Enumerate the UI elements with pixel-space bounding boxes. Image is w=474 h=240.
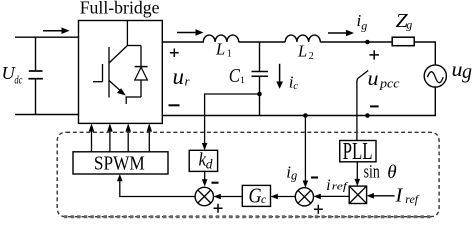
node C1 tap junction (257, 92, 262, 97)
ac source ug (424, 65, 446, 87)
wire Zg to source corner (414, 42, 435, 65)
wire multiplier to S2 (314, 194, 350, 200)
label L1 (215, 40, 232, 60)
capacitor C1 branch wire (259, 42, 261, 116)
label Iref (395, 185, 420, 207)
current arrow after bridge (177, 29, 204, 36)
label minus (u_pcc) (370, 105, 379, 107)
node u_pcc minus junction (365, 113, 370, 118)
svg-text:L: L (297, 42, 307, 61)
svg-text:Full-bridge: Full-bridge (80, 0, 160, 18)
label sin theta (364, 161, 397, 183)
label Udc (2, 63, 23, 86)
svg-text:dc: dc (14, 75, 22, 87)
svg-text:g: g (462, 61, 472, 83)
label ig (357, 11, 368, 33)
wire L2 to Zg (320, 41, 392, 43)
multiplier (sin product) (349, 186, 366, 203)
wire S2 to Gc (271, 194, 296, 200)
dashed controller border (57, 132, 439, 217)
svg-text:u: u (368, 68, 379, 90)
label minus (S1) (212, 182, 219, 184)
svg-text:θ: θ (387, 162, 396, 183)
full-bridge box (79, 21, 163, 124)
Gc box (242, 185, 270, 206)
current arrow ig (328, 30, 354, 37)
label + (S1) (214, 204, 223, 213)
label ug (452, 57, 473, 83)
wire Iref to multiplier (367, 193, 395, 199)
gate drive arrows SPWM to bridge (89, 123, 152, 151)
svg-text:i: i (326, 177, 330, 194)
svg-text:G: G (249, 183, 262, 207)
impedance Zg (392, 37, 414, 46)
capacitor Udc (dc-link) (28, 37, 43, 114)
wire bottom-left dc rail (15, 114, 79, 116)
label Zg (396, 11, 413, 32)
diode (anti-parallel) (127, 46, 147, 98)
svg-text:u: u (452, 57, 463, 81)
wire top-left dc rail (15, 36, 79, 38)
wire summer S1 to SPWM (117, 174, 195, 197)
svg-text:c: c (261, 192, 267, 206)
inductor L2 (285, 35, 320, 42)
label u_pcc (368, 68, 400, 91)
transistor IGBT (bridge symbol) (93, 21, 141, 105)
svg-text:g: g (361, 18, 367, 32)
svg-text:ref: ref (332, 181, 350, 192)
label + (S2) (314, 205, 323, 214)
svg-text:1: 1 (227, 49, 232, 60)
wire Gc to S1 (214, 194, 243, 200)
label iref (326, 177, 349, 194)
wire u_pcc to PLL (356, 81, 358, 141)
svg-text:1: 1 (240, 75, 245, 86)
svg-text:g: g (406, 18, 412, 32)
kd box (189, 150, 217, 171)
svg-text:I: I (395, 185, 404, 207)
label u_r (173, 64, 191, 89)
wire PLL to multiplier (355, 162, 361, 186)
svg-text:SPWM: SPWM (94, 153, 145, 175)
svg-text:r: r (185, 74, 191, 89)
svg-text:ref: ref (405, 194, 420, 206)
label PLL (343, 139, 373, 165)
label + (u_r) (170, 49, 179, 58)
label minus (S2) (311, 176, 318, 178)
svg-text:C: C (229, 65, 240, 87)
label C1 (229, 65, 245, 87)
summing junction S1 (195, 187, 213, 205)
wire ig feedback to S2 (303, 116, 309, 188)
svg-text:c: c (293, 81, 298, 92)
capacitor C1 plates (252, 72, 269, 77)
wire kd to summer (202, 171, 208, 186)
node PCC junction (365, 40, 370, 45)
svg-text:u: u (173, 64, 185, 89)
label minus (u_r) (169, 104, 180, 106)
label ic (289, 72, 299, 92)
wire L1 to L2 (239, 41, 286, 43)
label kd (199, 150, 213, 172)
SPWM box (73, 152, 168, 174)
wire bridge to L1 (162, 41, 204, 43)
PLL box (340, 141, 376, 162)
inductor L1 (203, 35, 238, 42)
svg-text:g: g (291, 168, 297, 182)
label Gc (249, 183, 268, 207)
svg-text:sin: sin (364, 161, 381, 182)
svg-text:2: 2 (309, 51, 314, 62)
svg-text:pcc: pcc (379, 77, 400, 91)
current arrow ic (276, 64, 283, 89)
wire capacitor-current tap to kd (202, 94, 260, 150)
svg-text:L: L (215, 40, 225, 59)
label Full-bridge (80, 0, 160, 18)
voltage probe hook (357, 71, 368, 83)
svg-text:d: d (206, 156, 213, 171)
wire source to bottom rail (162, 87, 435, 115)
summing junction S2 (295, 188, 313, 206)
label + (u_pcc) (369, 50, 379, 59)
label SPWM (94, 153, 145, 175)
node ig tap junction (303, 113, 308, 118)
label ig (feedback) (286, 162, 297, 182)
label L2 (297, 42, 314, 63)
current arrow into bridge (43, 27, 70, 34)
